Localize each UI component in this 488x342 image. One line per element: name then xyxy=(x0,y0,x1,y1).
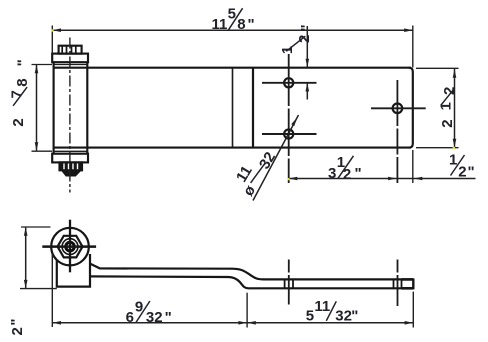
dim 2 1/2 line right xyxy=(454,69,456,147)
svg-text:32: 32 xyxy=(335,307,352,324)
svg-text:": " xyxy=(351,307,358,324)
bottom nut knurl slits xyxy=(64,164,78,170)
dim 3 1/2 right arrow xyxy=(388,177,397,181)
hex nut end view xyxy=(58,236,83,258)
side strap top line xyxy=(90,264,413,280)
holes A-B vertical centerline xyxy=(288,54,290,183)
side view hole A edges xyxy=(285,279,293,288)
hole B horizontal crosshair xyxy=(262,133,317,135)
dim text 6 9/32" xyxy=(126,298,172,326)
dim 2 inch top arrow xyxy=(24,227,28,236)
dim 11 5/8 right arrow xyxy=(404,28,413,32)
hole B circle xyxy=(284,129,293,138)
svg-text:6: 6 xyxy=(126,309,134,326)
dim text 2" rotated bottom left xyxy=(8,318,26,335)
svg-text:": " xyxy=(165,309,172,326)
svg-text:3: 3 xyxy=(328,165,336,182)
barrel centerline xyxy=(69,38,71,193)
svg-text:2: 2 xyxy=(10,118,27,126)
nut washer circle xyxy=(62,239,78,255)
yellow artifact dots xyxy=(51,29,455,180)
dim 11 5/8 line xyxy=(52,29,413,31)
svg-text:2: 2 xyxy=(458,164,466,181)
svg-text:11: 11 xyxy=(314,298,330,315)
dim 2 7/8 extension ticks xyxy=(32,65,53,152)
svg-text:": " xyxy=(248,16,255,33)
barrel body right edge xyxy=(86,62,88,154)
dim 2 7/8 line xyxy=(36,65,38,151)
top nut knurl lines xyxy=(62,46,76,54)
svg-text:5: 5 xyxy=(306,307,314,324)
dim text 1/2" bottom right xyxy=(449,152,475,181)
nut pin ring xyxy=(66,242,75,251)
leader line for hole diameter xyxy=(253,115,299,201)
dim 2 7/8 top arrow xyxy=(35,65,39,74)
svg-text:": " xyxy=(468,164,475,181)
dim 2 inch extension lines xyxy=(20,227,57,289)
svg-text:": " xyxy=(298,24,315,31)
dim 1/2 top up arrow xyxy=(306,83,310,92)
svg-text:8: 8 xyxy=(14,78,31,86)
dim text 3 1/2" xyxy=(328,154,362,183)
leader arrowhead xyxy=(291,117,297,126)
side strap end heavier edges xyxy=(402,279,414,288)
knuckle circle xyxy=(51,228,89,266)
dim 3 1/2 and 1/2 chained line xyxy=(289,178,476,180)
svg-text:": " xyxy=(14,59,31,66)
top view: strap top edge xyxy=(54,67,411,69)
hole C circle xyxy=(393,104,403,114)
dim 2 inch vertical line xyxy=(25,227,27,289)
svg-text:1: 1 xyxy=(437,102,454,110)
barrel bottom collar line xyxy=(54,150,88,152)
dim 2 inch bottom arrow xyxy=(24,280,28,289)
svg-text:2: 2 xyxy=(9,327,26,335)
dim text 2 7/8" rotated left xyxy=(9,59,32,126)
barrel top cap xyxy=(52,54,88,63)
barrel top collar line xyxy=(54,64,88,66)
svg-text:2: 2 xyxy=(439,119,456,127)
side view hole C centerline xyxy=(397,260,399,307)
svg-text:32: 32 xyxy=(146,309,163,326)
nut crosshair vertical xyxy=(69,220,71,273)
extension line right end bottom xyxy=(412,150,414,183)
dim text 2 1/2 rotated right xyxy=(437,87,458,128)
hole A horizontal crosshair xyxy=(262,82,317,84)
bottom nut knurled (dark with slits) xyxy=(60,162,83,170)
dim 11 5/8 left arrow xyxy=(52,28,61,32)
svg-text:8: 8 xyxy=(237,16,245,33)
dim text 5 11/32" xyxy=(306,298,359,325)
dim 6 9/32 left arrow xyxy=(52,321,61,325)
svg-text:": " xyxy=(8,318,25,325)
extension line strap right end xyxy=(412,292,414,328)
svg-text:": " xyxy=(355,165,362,182)
barrel body left edge xyxy=(53,62,55,154)
top nut knurled xyxy=(59,46,82,54)
top view: strap right end edge xyxy=(409,68,413,148)
top view: bend line 2 xyxy=(252,68,254,148)
side view hole C edges xyxy=(394,279,402,288)
dim 3 1/2 left arrow xyxy=(289,177,298,181)
extension line right end top xyxy=(412,26,414,68)
dim 1/2 top down arrow xyxy=(306,59,310,68)
extension line bend step xyxy=(246,293,248,328)
leader text dia 11/32 rotated xyxy=(233,149,279,199)
barrel bottom cap xyxy=(52,154,88,163)
top view: strap bottom edge xyxy=(54,147,411,149)
extension line left barrel xyxy=(51,26,53,55)
dim 2 1/2 top arrow xyxy=(453,69,457,78)
knuckle plate outline xyxy=(57,254,90,287)
dim 6 9/32 right arrow xyxy=(238,321,247,325)
side strap right end cap xyxy=(412,278,414,289)
dim 2 1/2 bottom arrow xyxy=(453,139,457,148)
dim 6 9/32 + 5 11/32 chained line xyxy=(52,322,413,324)
svg-text:1: 1 xyxy=(449,152,457,169)
hole C vertical centerline xyxy=(396,80,398,183)
dim 1/2 right arrow (outside pointing left) xyxy=(414,177,423,181)
dim 2 7/8 bottom arrow xyxy=(35,142,39,151)
bottom nut chamfer V xyxy=(62,170,82,176)
nut crosshair horizontal xyxy=(42,245,96,248)
dim 5 11/32 right arrow xyxy=(405,321,414,325)
hole A circle xyxy=(284,78,293,87)
top view: bend line 1 xyxy=(232,68,234,148)
hole C horizontal crosshair xyxy=(371,107,426,109)
dim text 11 5/8" xyxy=(212,6,255,34)
extension line barrel left tangent xyxy=(51,254,53,328)
dim 1/2 top vertical (lower segment, up arrow) xyxy=(306,83,308,100)
side strap bottom line xyxy=(90,276,413,288)
svg-text:2: 2 xyxy=(343,166,351,183)
dim text 1/2" rotated top xyxy=(279,24,315,54)
dim 2 1/2 extension lines xyxy=(416,68,459,147)
side view hole A centerline xyxy=(288,260,290,305)
dim 5 11/32 left arrow xyxy=(247,321,256,325)
dim 1/2 top vertical (upper segment, down arrow) xyxy=(306,26,308,67)
svg-text:11: 11 xyxy=(212,16,228,33)
